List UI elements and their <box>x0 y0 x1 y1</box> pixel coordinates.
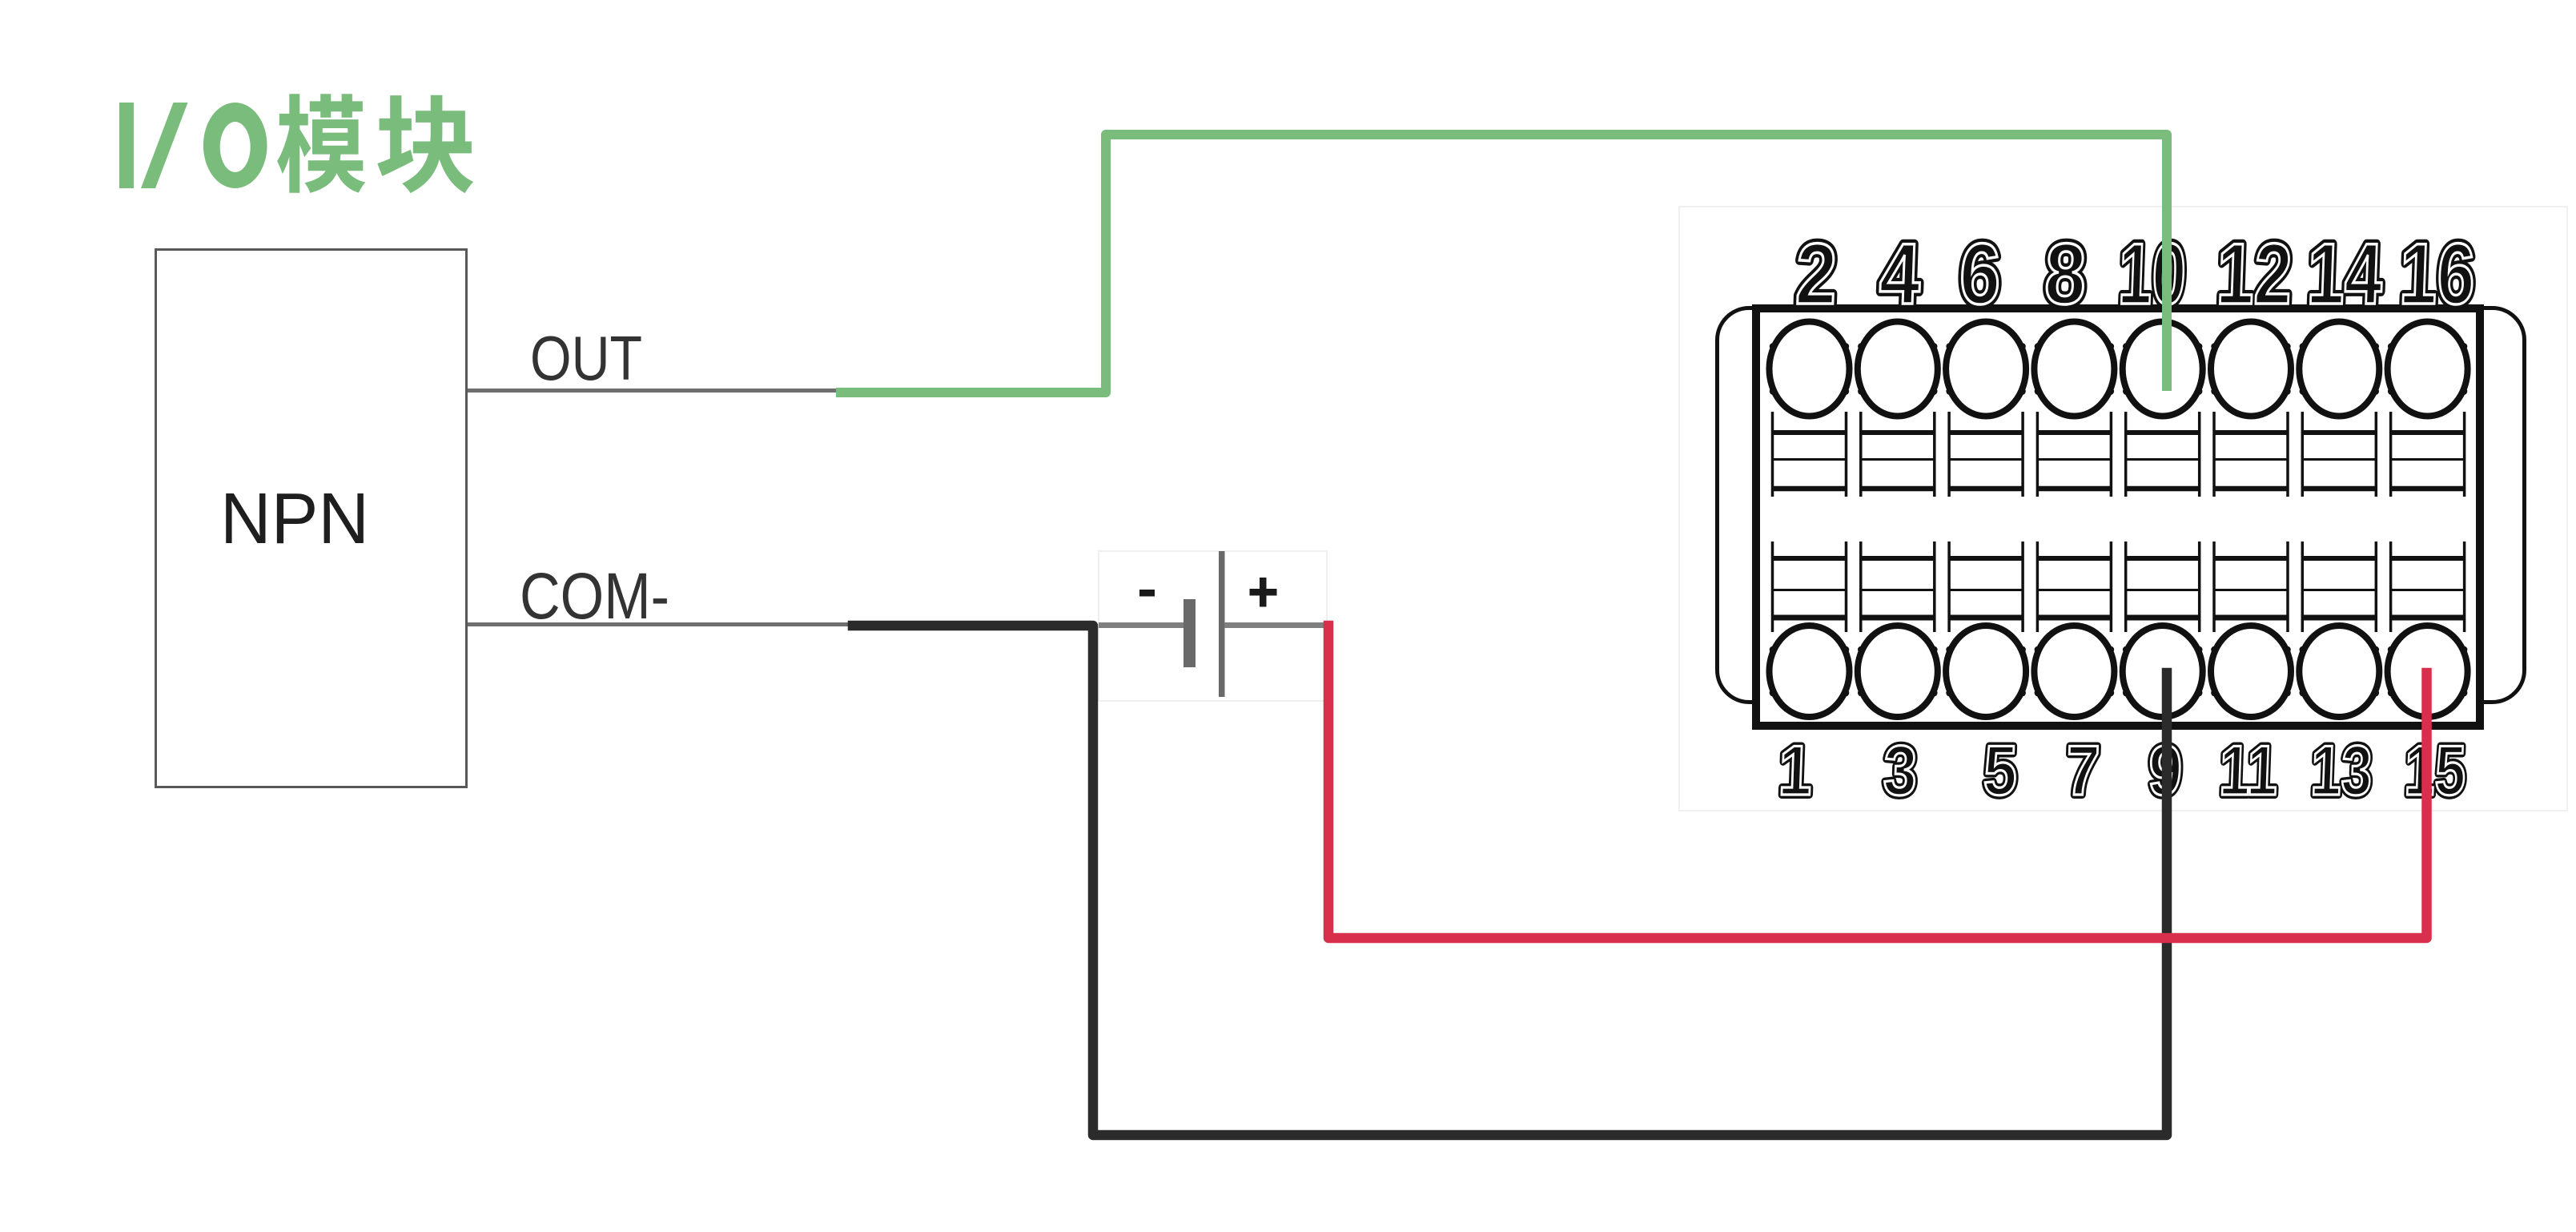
spring clamp lower pin 5 <box>1949 542 2023 632</box>
spring clamp upper pin 4 <box>1861 412 1935 497</box>
wire OUT lead <box>468 389 842 393</box>
clamp hole pin 14 <box>2299 322 2379 417</box>
svg-text:14: 14 <box>2305 225 2384 323</box>
svg-text:COM-: COM- <box>520 560 669 633</box>
clamp hole pin 8 <box>2034 322 2114 417</box>
battery plus sign <box>1250 578 1277 607</box>
pin number 4 (top) <box>1878 226 1922 323</box>
pin number 6 (top) <box>1958 226 2002 323</box>
pin number 12 (top) <box>2215 225 2293 323</box>
spring clamp upper pin 16 <box>2391 412 2465 497</box>
spring clamp upper pin 10 <box>2126 412 2200 497</box>
spring clamp lower pin 7 <box>2037 542 2111 632</box>
svg-text:7: 7 <box>2065 731 2101 810</box>
pin number 7 (bottom) <box>2065 731 2101 810</box>
spring clamp lower pin 1 <box>1773 542 1847 632</box>
spring clamp upper pin 6 <box>1949 412 2023 497</box>
svg-text:4: 4 <box>1878 226 1922 323</box>
pin number 14 (top) <box>2305 225 2384 323</box>
clamp hole pin 7 <box>2034 626 2114 717</box>
spring clamp lower pin 3 <box>1861 542 1935 632</box>
svg-text:3: 3 <box>1883 731 1919 810</box>
module box NPN <box>156 250 467 787</box>
battery minus sign <box>1139 590 1155 597</box>
spring clamp upper pin 12 <box>2214 412 2288 497</box>
clamp hole pin 5 <box>1946 626 2026 717</box>
clamp hole pin 6 <box>1946 322 2026 417</box>
wire black COM- to pin 9 <box>853 626 2167 1135</box>
wire COM- lead <box>468 622 855 626</box>
svg-text:NPN: NPN <box>220 479 369 559</box>
svg-text:11: 11 <box>2218 731 2279 810</box>
svg-text:OUT: OUT <box>530 323 642 393</box>
wire green OUT to pin 10 <box>841 135 2167 393</box>
pin number 13 (bottom) <box>2309 731 2373 810</box>
svg-text:6: 6 <box>1958 226 2002 323</box>
clamp hole pin 4 <box>1858 322 1938 417</box>
clamp hole pin 13 <box>2299 626 2379 717</box>
svg-text:13: 13 <box>2309 731 2373 810</box>
svg-text:12: 12 <box>2215 225 2293 323</box>
pin number 9 (bottom) <box>2148 731 2184 810</box>
clamp hole pin 16 <box>2388 322 2468 417</box>
pin number 5 (bottom) <box>1983 731 2019 810</box>
connector main rectangle <box>1756 308 2480 726</box>
spring clamp upper pin 2 <box>1773 412 1847 497</box>
spring clamp lower pin 15 <box>2391 542 2465 632</box>
clamp hole pin 3 <box>1858 626 1938 717</box>
svg-text:16: 16 <box>2398 225 2477 323</box>
clamp hole pin 2 <box>1770 322 1850 417</box>
connector outline light box <box>1679 207 2567 811</box>
wire red battery+ to pin 15 <box>1328 626 2427 938</box>
pin number 1 (bottom) <box>1778 731 1814 810</box>
svg-text:15: 15 <box>2403 731 2467 810</box>
pin number 2 (top) <box>1794 226 1839 323</box>
pin number 11 (bottom) <box>2218 731 2279 810</box>
spring clamp lower pin 13 <box>2302 542 2376 632</box>
spring clamp lower pin 9 <box>2126 542 2200 632</box>
battery DC source <box>1099 551 1327 701</box>
pin number 15 (bottom) <box>2403 731 2467 810</box>
battery positive lead <box>1224 622 1327 628</box>
connector body rounded ear <box>1718 308 2525 703</box>
battery negative plate <box>1184 599 1196 667</box>
svg-text:10: 10 <box>2117 226 2188 322</box>
spring clamp upper pin 14 <box>2302 412 2376 497</box>
battery positive plate <box>1219 551 1225 697</box>
svg-text:5: 5 <box>1983 731 2019 810</box>
pin number 8 (top) <box>2044 226 2088 323</box>
clamp hole pin 12 <box>2211 322 2291 417</box>
pin number 16 (top) <box>2398 225 2477 323</box>
battery negative lead <box>1099 622 1184 628</box>
clamp hole pin 11 <box>2211 626 2291 717</box>
clamp hole pin 1 <box>1770 626 1850 717</box>
clamp hole pin 9 <box>2123 626 2203 717</box>
svg-text:1: 1 <box>1778 731 1814 810</box>
spring clamp upper pin 8 <box>2037 412 2111 497</box>
spring clamp lower pin 11 <box>2214 542 2288 632</box>
pin number 10 (top) <box>2117 226 2188 322</box>
title I/O模块 <box>119 94 473 193</box>
svg-text:8: 8 <box>2044 226 2088 323</box>
svg-text:2: 2 <box>1794 226 1839 323</box>
clamp hole pin 15 <box>2388 626 2468 717</box>
clamp hole pin 10 <box>2123 322 2203 417</box>
pin number 3 (bottom) <box>1883 731 1919 810</box>
